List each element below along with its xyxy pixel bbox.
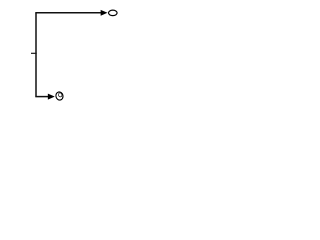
arrowhead: top edge (101, 11, 106, 16)
node: double-ellipse symbol (bottom) (55, 91, 64, 101)
wire: top branch (35, 12, 101, 14)
wire: bottom branch (35, 96, 48, 98)
arrowhead: bottom edge (48, 94, 53, 99)
node: state ellipse (top right) (109, 10, 118, 16)
wire: vertical trunk (35, 13, 37, 97)
wire: left stub (31, 52, 37, 54)
